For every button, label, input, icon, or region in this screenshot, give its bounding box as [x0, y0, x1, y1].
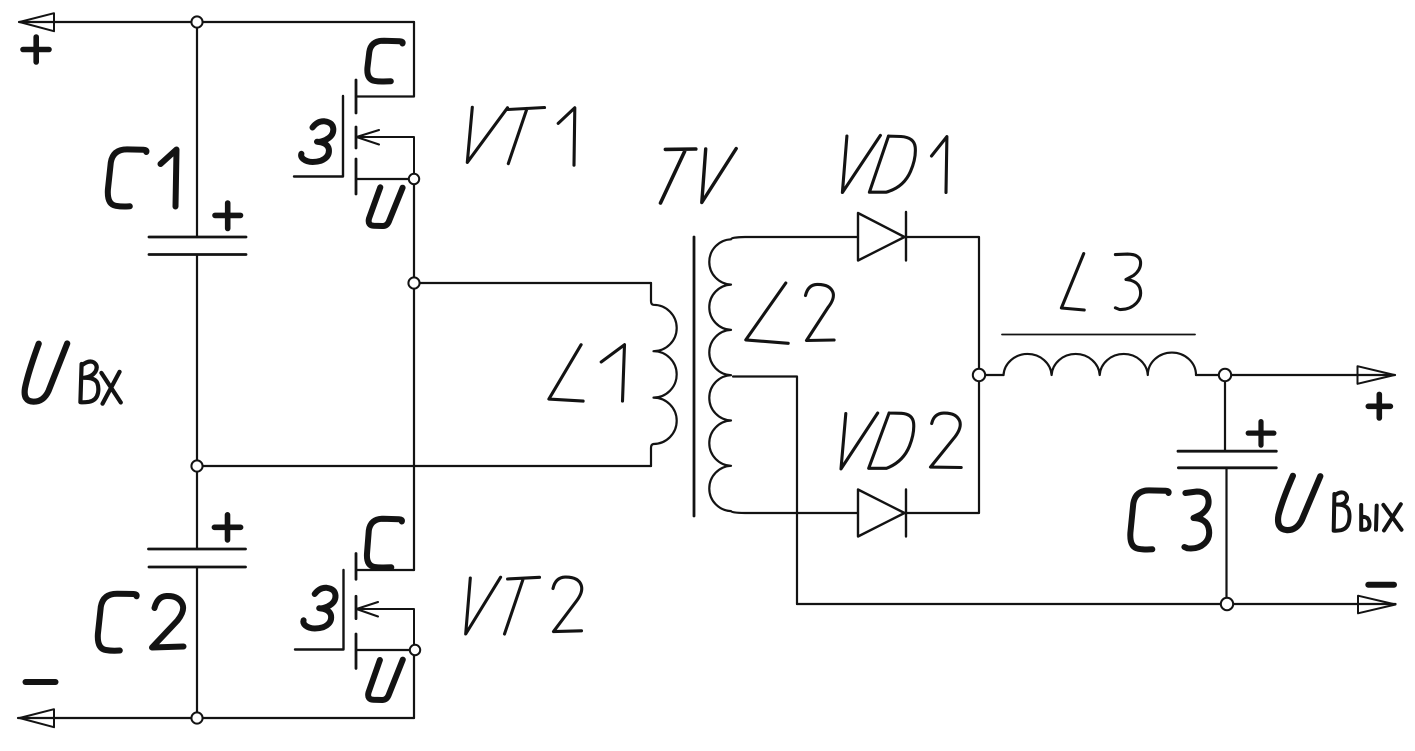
capacitor C3	[1178, 451, 1276, 468]
label VT2 electrode Z (gate)	[303, 588, 335, 629]
output arrow +	[1358, 366, 1395, 384]
transistor VT1 drain wire	[356, 22, 414, 97]
transistor VT2 source lead	[356, 649, 414, 651]
input arrow - (bottom left)	[20, 709, 55, 727]
label VT2 electrode C	[367, 519, 402, 568]
label VT2 electrode I (source)	[368, 660, 403, 700]
transistor VT1 substrate arrow	[356, 130, 414, 179]
capacitor C1	[149, 237, 246, 255]
label subscript vx	[80, 362, 98, 403]
label subscript vyx	[1334, 492, 1350, 530]
wire VD1 cathode to output node	[906, 237, 979, 513]
transistor VT2 substrate arrow	[356, 602, 414, 650]
label VT1	[467, 107, 507, 162]
transistor VT1 source lead	[356, 178, 414, 180]
plus sign output	[1368, 394, 1390, 418]
wire L2 center tap	[733, 377, 797, 605]
plus sign C3	[1248, 422, 1274, 446]
wire VT2 source to bottom rail	[413, 650, 415, 718]
node mid C1/C2	[191, 460, 202, 471]
plus sign C1	[215, 203, 241, 229]
transistor VT1 channel	[355, 80, 358, 194]
label VT1 electrode Z (gate)	[301, 121, 333, 162]
transistor VT2 gate	[295, 570, 344, 650]
plus sign input	[23, 37, 49, 62]
input arrow + (top left)	[20, 13, 55, 31]
label C2	[98, 594, 137, 651]
wire C3 branch bottom	[1225, 468, 1227, 604]
label U (input)	[25, 344, 68, 402]
output arrow -	[1358, 596, 1396, 614]
junction nodes (open circles)	[191, 16, 1233, 723]
minus sign input	[26, 679, 56, 685]
transistor VT1 gate	[294, 96, 343, 177]
label VD2	[841, 413, 878, 469]
inductor L3 core bar	[1002, 334, 1195, 336]
winding L2 (transformer secondary)	[709, 237, 858, 513]
wire mid node to L1 bottom	[197, 465, 651, 467]
wire output bottom rail	[797, 603, 1396, 605]
node VT2 source	[410, 645, 420, 655]
plus sign C2	[214, 515, 240, 540]
wire top rail	[19, 21, 414, 23]
transistor VT2 channel	[355, 554, 358, 669]
label L1	[549, 345, 583, 401]
node rectifier output	[973, 369, 985, 381]
wire L3 to output plus arrow	[1196, 374, 1395, 376]
wire bottom rail	[18, 717, 414, 719]
diode VD2	[858, 490, 906, 537]
wire half-bridge node to L1	[414, 282, 651, 284]
node C3 / bottom rail	[1221, 598, 1233, 610]
inductor L3	[1004, 353, 1197, 375]
label C3	[1130, 490, 1168, 549]
wire VT1 source to VT2 drain	[413, 179, 415, 570]
node L3 / C3	[1219, 369, 1231, 381]
label U (output)	[1278, 476, 1320, 530]
label L2	[746, 283, 788, 343]
label L3	[1061, 254, 1084, 310]
node top rail / C1	[191, 16, 202, 27]
transistor VT2 drain lead	[356, 569, 414, 571]
diode VD1	[858, 212, 906, 261]
label TV	[661, 149, 696, 203]
node half-bridge midpoint	[408, 277, 419, 288]
label VD1	[842, 135, 880, 192]
node bottom rail / C2	[191, 712, 202, 723]
label VT1 electrode I (source)	[369, 187, 403, 226]
wire output node to L3	[979, 374, 1004, 376]
capacitor C2	[149, 549, 246, 567]
minus sign output	[1368, 582, 1394, 588]
wire left column C1	[196, 22, 198, 237]
wire C3 branch top	[1224, 375, 1226, 451]
wire C1 to mid node	[196, 255, 198, 550]
transformer core TV	[693, 237, 696, 516]
label C1	[108, 149, 147, 206]
label VT2	[466, 577, 501, 634]
winding L1 (transformer primary)	[651, 283, 677, 466]
node VT1 source	[409, 174, 419, 184]
wire C2 to bottom rail	[196, 567, 198, 718]
label VT1 electrode C	[367, 41, 402, 82]
